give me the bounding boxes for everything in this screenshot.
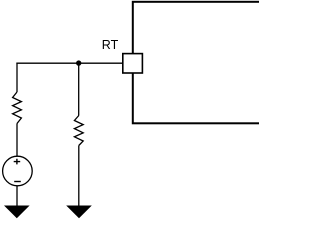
IC U1 (133, 2, 265, 124)
resistor R1 (13, 92, 22, 124)
node junction (76, 60, 81, 65)
svg-text:RT: RT (102, 38, 119, 52)
wire left branch vertical drop (16, 63, 18, 92)
wire V1 to ground (16, 186, 18, 206)
pin RT terminal box (123, 54, 143, 73)
wire R1 to source V1 (16, 124, 18, 157)
wire horizontal from left branch through junction to RT pin (16, 62, 122, 64)
wire R2 to ground (78, 146, 80, 206)
resistor R2 (74, 116, 83, 146)
ground (66, 206, 92, 219)
wire junction to R2 (78, 63, 80, 115)
minus polarity mark (14, 181, 21, 183)
voltage source V1 (3, 156, 33, 186)
plus polarity mark (14, 159, 21, 165)
ground (4, 206, 30, 219)
